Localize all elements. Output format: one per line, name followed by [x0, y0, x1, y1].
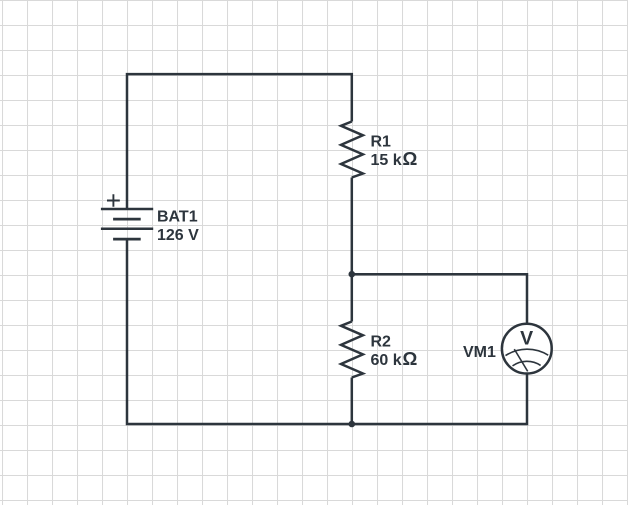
svg-text:BAT1: BAT1 — [157, 209, 198, 226]
svg-text:60 kΩ: 60 kΩ — [371, 348, 418, 369]
battery BAT1 plus polarity mark — [107, 194, 120, 207]
resistor R1 — [341, 122, 363, 178]
voltmeter VM1 scale upper arc — [506, 349, 549, 355]
wire: R2 bottom lead to node B — [351, 378, 354, 425]
svg-text:15 kΩ: 15 kΩ — [371, 148, 418, 169]
resistor R2 — [341, 322, 363, 378]
node B junction dot — [349, 421, 356, 428]
svg-text:VM1: VM1 — [463, 344, 496, 361]
wire: BAT1 negative lead, bottom rail, VM1 bottom lead — [127, 239, 527, 424]
wire: R1 bottom lead to node A — [351, 178, 354, 275]
battery BAT1 — [101, 209, 153, 239]
svg-text:R2: R2 — [371, 334, 392, 351]
wire: middle rail node A to VM1 top lead — [352, 274, 527, 325]
wire: R2 top lead from node A — [351, 274, 354, 321]
voltmeter VM1 scale lower arc — [513, 361, 541, 366]
svg-text:R1: R1 — [371, 134, 392, 151]
node A junction dot — [349, 271, 356, 278]
svg-text:V: V — [520, 328, 533, 350]
voltmeter VM1 needle — [514, 349, 527, 371]
svg-text:126 V: 126 V — [157, 227, 199, 244]
voltmeter VM1 body — [502, 324, 552, 374]
wire: BAT1 positive lead, top rail, R1 top lead — [127, 74, 352, 209]
